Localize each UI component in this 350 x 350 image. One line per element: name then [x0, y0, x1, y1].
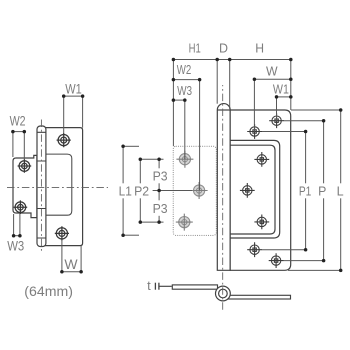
dim L1 (hidden leaf height) [123, 146, 139, 235]
large leaf plate (left view, right plate) [43, 128, 83, 246]
recessed panel outer outline [230, 140, 280, 238]
svg-text:P3: P3 [153, 201, 168, 216]
thickness dim ticks (t) [155, 283, 171, 290]
front plate (right leaf) [230, 110, 291, 270]
plate top edge across knuckle [217, 109, 230, 111]
pin section (inner circle) [219, 289, 228, 298]
svg-text:D: D [219, 41, 228, 56]
svg-text:(64mm): (64mm) [24, 284, 73, 299]
corner hole lower-right [269, 253, 284, 268]
corner hole upper-right [269, 113, 284, 128]
svg-text:W2: W2 [177, 62, 192, 77]
hidden hole middle (gray) [191, 182, 208, 199]
panel hole top [254, 152, 269, 167]
svg-text:W: W [266, 63, 278, 78]
dim W1 (left view) [64, 96, 83, 133]
dim W3 (left view) [14, 214, 20, 236]
svg-text:P: P [318, 184, 326, 199]
recessed panel inner outline [230, 145, 275, 234]
screw hole large leaf top [57, 133, 71, 147]
svg-text:W1: W1 [65, 81, 82, 96]
svg-text:W2: W2 [10, 113, 26, 128]
screw hole large leaf bottom [55, 226, 69, 240]
corner hole upper-left [247, 124, 262, 139]
dim P (right side) [284, 121, 324, 261]
dim W1 (front view) [277, 97, 291, 121]
small leaf plate (left view, left plate) [13, 155, 37, 217]
svg-text:W3: W3 [177, 83, 192, 98]
svg-text:H: H [255, 41, 264, 56]
screw hole small leaf top [18, 159, 32, 173]
dim W (left view) [62, 240, 81, 272]
hidden hole bottom (gray) [176, 214, 193, 231]
svg-text:H1: H1 [189, 41, 201, 56]
dim W2 (front view) [173, 80, 199, 191]
pin axis centerline (left view vertical) [40, 120, 42, 254]
dim W (front view) [254, 79, 290, 131]
screw hole small leaf bottom [14, 200, 28, 214]
hinge axis centerline (front view vertical) [222, 85, 224, 311]
svg-text:P1: P1 [299, 184, 312, 199]
dim chain H1 / D / H [173, 60, 290, 147]
knuckle (front view) with top cap [217, 104, 230, 271]
svg-text:W: W [64, 257, 77, 272]
knuckle column (left view, edge-on strip) [37, 126, 46, 247]
dim W3 (front view) [173, 100, 184, 159]
svg-text:P3: P3 [153, 169, 168, 184]
dim L (right side) [288, 110, 341, 270]
svg-text:W1: W1 [273, 81, 289, 96]
dim W2 (left view) [13, 132, 24, 160]
svg-text:L: L [337, 184, 344, 199]
horizontal centerline (left view) [7, 187, 108, 189]
right leaf section (thin plate) [223, 295, 291, 299]
panel hole bottom [254, 215, 269, 230]
pin knuckle section (outer circle) [216, 286, 231, 301]
hidden leaf (dotted outline) [173, 146, 216, 235]
hidden hole top (gray) [176, 151, 193, 168]
dim P1 (right side) [262, 132, 306, 250]
dim P2 (hidden holes span) [140, 159, 163, 222]
dim P3 (hole pitch) [153, 159, 192, 222]
svg-text:P2: P2 [134, 183, 149, 198]
svg-text:t: t [147, 278, 151, 293]
recess outline on large leaf (left view) [46, 154, 72, 215]
svg-text:L1: L1 [119, 183, 132, 198]
svg-text:W3: W3 [7, 238, 24, 253]
corner hole lower-left [247, 242, 262, 257]
left leaf section (thin plate) [172, 285, 217, 289]
panel hole middle [240, 183, 255, 198]
knuckle joint lines [37, 132, 46, 238]
